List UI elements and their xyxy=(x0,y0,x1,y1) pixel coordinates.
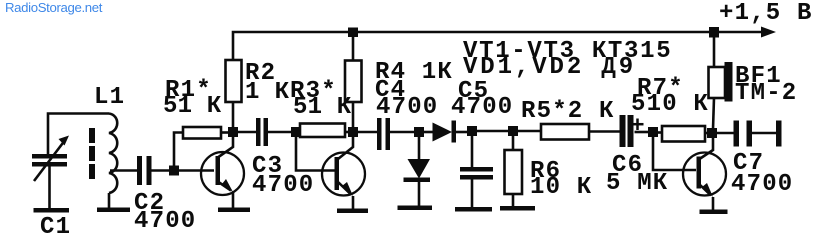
svg-text:510 К: 510 К xyxy=(631,91,709,118)
power rail arrow xyxy=(761,27,776,38)
label R3 xyxy=(290,78,352,121)
node VT2 collector junction xyxy=(348,127,358,137)
svg-text:4700: 4700 xyxy=(731,171,793,198)
resistor R2 xyxy=(226,60,242,128)
svg-text:10 К: 10 К xyxy=(530,174,592,201)
node VT3 collector junction xyxy=(707,128,717,138)
diode VD2 xyxy=(404,137,431,207)
ground (L1) xyxy=(97,208,130,213)
label R2 xyxy=(245,60,290,106)
inductor L1 xyxy=(89,114,117,209)
node C6/R7/VT3 junction xyxy=(648,127,658,137)
ground (C5) xyxy=(455,207,492,212)
label R1 xyxy=(163,77,222,120)
svg-text:51 К: 51 К xyxy=(163,93,222,120)
resistor R4 xyxy=(345,37,362,128)
svg-text:L1: L1 xyxy=(94,84,125,111)
transistor VT3 xyxy=(683,138,726,211)
resistor R7 xyxy=(658,126,709,142)
site logo RadioStorage.net xyxy=(5,0,102,15)
node VT2 base junction xyxy=(291,127,301,137)
wire junction down to VT3 base xyxy=(653,137,696,171)
label R5 xyxy=(521,98,615,125)
transistor VT2 xyxy=(322,137,365,209)
node power rail / R4 junction xyxy=(348,28,358,38)
label L1 xyxy=(94,84,125,111)
label VT1-VT3 type xyxy=(463,38,672,65)
capacitor C3 xyxy=(238,118,292,146)
label +1,5 B xyxy=(719,0,813,27)
capacitor C5 xyxy=(460,136,493,208)
resistor R5 xyxy=(518,124,621,140)
svg-text:VD1,VD2 Д9: VD1,VD2 Д9 xyxy=(463,54,636,81)
resistor R3 xyxy=(300,124,349,138)
label VD1,VD2 type xyxy=(463,54,636,81)
svg-text:1 К: 1 К xyxy=(245,79,290,106)
node VT1 collector junction xyxy=(228,127,238,137)
capacitor C4 xyxy=(358,118,415,150)
label C6 xyxy=(606,152,668,197)
resistor R1 xyxy=(174,127,229,166)
svg-text:ТМ-2: ТМ-2 xyxy=(735,80,797,107)
svg-text:+1,5 В: +1,5 В xyxy=(719,0,813,27)
ground (VT2 emitter) xyxy=(337,209,368,214)
label C7 xyxy=(731,150,793,198)
wire junction down to VT2 base xyxy=(296,137,335,171)
node C5 junction xyxy=(467,126,477,136)
label C5 xyxy=(451,78,513,121)
svg-text:4700: 4700 xyxy=(451,94,513,121)
svg-text:C1: C1 xyxy=(40,214,71,241)
node VD junction xyxy=(414,127,424,137)
capacitor C1 (variable) xyxy=(32,114,109,209)
label R6 xyxy=(530,158,592,201)
wire junction to VT1 base xyxy=(179,169,215,172)
label R4 xyxy=(375,59,453,86)
ground (VD2) xyxy=(398,206,433,211)
capacitor C7 xyxy=(717,121,777,147)
svg-text:51 К: 51 К xyxy=(293,94,352,121)
label C1 xyxy=(40,214,71,241)
label C3 value xyxy=(252,153,314,199)
sounder BF1 TM-2 xyxy=(709,38,733,130)
output terminal after C7 xyxy=(776,121,782,147)
label C2 value xyxy=(134,190,196,235)
ground (VT3 emitter) xyxy=(700,210,728,215)
svg-text:4700: 4700 xyxy=(134,208,196,235)
wire L1 tap to C2 xyxy=(110,169,137,172)
ground (VT1 emitter) xyxy=(218,208,250,213)
svg-text:R5*2 К: R5*2 К xyxy=(521,98,615,125)
capacitor C6 (electrolytic) xyxy=(620,115,650,147)
node VT1 base junction xyxy=(169,166,179,176)
svg-text:4700: 4700 xyxy=(252,172,314,199)
wire +1,5V power rail xyxy=(233,32,762,60)
diode VD1 xyxy=(424,121,469,143)
resistor R6 xyxy=(505,136,523,207)
svg-text:4700: 4700 xyxy=(376,94,438,121)
ground (C1) xyxy=(34,208,70,213)
label R7 xyxy=(631,75,709,118)
ground (R6) xyxy=(500,206,535,211)
wire C5 junction to R6 junction xyxy=(477,130,510,133)
label C4 xyxy=(375,77,438,121)
svg-text:5 МК: 5 МК xyxy=(606,170,668,197)
node BF1 power junction xyxy=(709,27,719,38)
capacitor C2 xyxy=(137,156,170,185)
node R6 junction xyxy=(508,126,518,136)
transistor VT1 xyxy=(201,137,244,209)
label BF1 xyxy=(735,63,797,107)
